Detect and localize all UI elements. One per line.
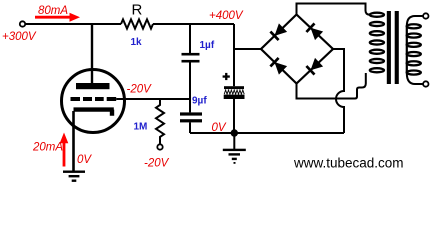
bridge rectifier diamond	[261, 15, 333, 84]
wire: +400V corner down to bridge/cap	[233, 24, 235, 86]
transformer core	[387, 11, 399, 84]
svg-text:20mA: 20mA	[32, 142, 63, 154]
terminal +300V	[20, 21, 25, 26]
svg-text:R: R	[132, 2, 143, 19]
wire: top rail from +300V terminal to R	[25, 23, 121, 25]
svg-text:0V: 0V	[77, 154, 92, 166]
svg-text:1k: 1k	[131, 37, 143, 48]
svg-text:www.tubecad.com: www.tubecad.com	[293, 156, 404, 171]
svg-text:-20V: -20V	[127, 84, 153, 96]
current arrow 20mA	[60, 133, 69, 167]
resistor 1M	[156, 99, 164, 144]
diode D3 (bottom-left, B to L)	[270, 58, 287, 75]
wire: electrolytic to 0V node	[233, 99, 235, 133]
tube cathode	[74, 110, 114, 116]
wire: 9uf to ground bus	[189, 122, 191, 133]
tube plate	[76, 83, 110, 89]
wire: 1uf to 9uf	[189, 63, 191, 113]
ground bus wire	[190, 132, 344, 134]
wire: grid to coupling node	[116, 98, 190, 100]
transformer primary winding	[370, 13, 384, 73]
tube grid (dashes)	[71, 97, 117, 101]
wire: R to +400V corner	[153, 23, 234, 25]
transformer secondary winding	[407, 24, 421, 74]
wire: secondary top lead	[407, 16, 423, 26]
svg-text:+300V: +300V	[2, 31, 37, 43]
svg-text:9µf: 9µf	[192, 96, 207, 107]
capacitor 9uf	[180, 112, 202, 122]
terminal secondary top	[423, 13, 428, 18]
svg-text:-20V: -20V	[144, 158, 170, 170]
wire: bridge bottom to transformer primary return	[297, 73, 366, 99]
current arrow 80mA	[35, 13, 80, 22]
terminal -20V (grid bias)	[157, 144, 162, 149]
capacitor 1uf	[182, 53, 200, 63]
wire: to bridge left corner	[234, 48, 261, 50]
terminal secondary bottom	[423, 81, 428, 86]
wire: secondary bottom lead	[407, 73, 423, 84]
wire: plate lead from top rail	[91, 24, 93, 83]
ground (main)	[223, 133, 246, 164]
electrolytic capacitor plus sign	[223, 73, 230, 80]
resistor R (1k) zigzag	[121, 19, 153, 28]
svg-text:1M: 1M	[134, 122, 148, 133]
svg-text:+400V: +400V	[209, 10, 244, 22]
wire: bridge top to transformer primary	[297, 4, 370, 15]
junction node 0V	[231, 129, 238, 136]
electrolytic capacitor C1	[224, 86, 245, 99]
diode D1 (top-left, T to L)	[270, 23, 287, 40]
wire: secondary winding connector	[406, 26, 408, 72]
svg-text:0V: 0V	[212, 122, 227, 134]
capacitor 1uf top lead	[189, 24, 191, 53]
wire: cathode lead to ground	[72, 111, 75, 171]
wire: bridge right corner down (with hop) to 0V bus	[333, 49, 344, 133]
diode D2 (top-right, R to T)	[306, 23, 323, 40]
ground (cathode)	[63, 171, 85, 182]
tube V1 envelope	[62, 70, 125, 133]
svg-text:1µf: 1µf	[200, 40, 215, 51]
diode D4 (bottom-right, R to B)	[306, 58, 323, 75]
svg-text:80mA: 80mA	[38, 5, 68, 17]
